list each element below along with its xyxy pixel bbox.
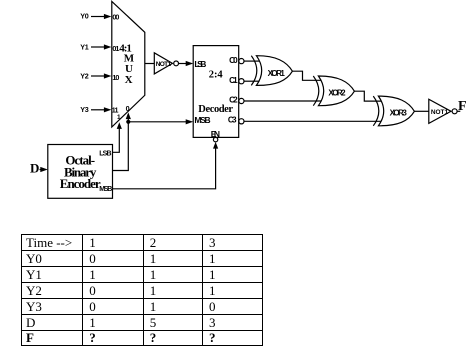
svg-text:2:4: 2:4 bbox=[209, 70, 224, 81]
wire Y3 input bbox=[91, 109, 105, 111]
wire Y0 input bbox=[91, 16, 105, 18]
decoder output bubble C0 bbox=[239, 59, 244, 64]
wire C3 to XOR3 bbox=[244, 120, 381, 122]
xor-gate XOR3 body bbox=[378, 96, 414, 126]
wire C0 to XOR1 bbox=[244, 60, 260, 62]
svg-text:0: 0 bbox=[126, 104, 130, 113]
wire encoder mid output to MUX select 0 bbox=[113, 119, 129, 171]
arrowhead Y0 bbox=[104, 14, 112, 19]
wire XOR2 output to XOR3 bbox=[354, 91, 381, 101]
svg-text:C1: C1 bbox=[229, 76, 238, 85]
svg-text:MSB: MSB bbox=[194, 115, 210, 125]
mux U1 4:1 MUX body bbox=[112, 1, 145, 127]
svg-text:NOT1: NOT1 bbox=[156, 61, 172, 68]
wire C2 to XOR2 bbox=[244, 100, 321, 102]
wire Y2 input bbox=[91, 75, 105, 77]
arrowhead to decoder MSB bbox=[186, 119, 194, 124]
wire D input bbox=[40, 169, 43, 171]
svg-text:C2: C2 bbox=[229, 96, 238, 105]
svg-text:LSB: LSB bbox=[99, 151, 111, 158]
svg-text:C3: C3 bbox=[228, 116, 237, 125]
svg-text:C0: C0 bbox=[229, 56, 238, 65]
junction dot bbox=[126, 120, 130, 124]
wire NOT2 bubble to F bbox=[457, 110, 460, 112]
wire encoder MSB to decoder EN bbox=[113, 148, 216, 188]
svg-text:D: D bbox=[30, 161, 39, 176]
arrowhead D input bbox=[40, 167, 48, 172]
decoder U2 2:4 decoder body bbox=[193, 46, 239, 138]
svg-text:U: U bbox=[125, 63, 133, 75]
arrowhead Y3 bbox=[104, 107, 112, 112]
truth table bbox=[21, 234, 264, 346]
arrowhead NOT1 to decoder LSB bbox=[186, 61, 194, 66]
svg-text:Y1: Y1 bbox=[80, 42, 89, 51]
xor-gate XOR1 body bbox=[256, 56, 292, 86]
not-gate NOT2 bubble bbox=[452, 109, 457, 114]
xor-gate XOR1 input arc bbox=[251, 56, 256, 86]
svg-text:Y3: Y3 bbox=[80, 105, 89, 114]
not-gate NOT1 triangle bbox=[154, 53, 172, 74]
arrowhead select 0 bbox=[126, 112, 131, 119]
arrowhead Y1 bbox=[104, 44, 112, 49]
decoder enable bubble EN bbox=[213, 137, 217, 141]
svg-text:F: F bbox=[458, 99, 467, 114]
wire Y1 input bbox=[91, 46, 105, 48]
wire XOR3 output to NOT2 bbox=[414, 110, 428, 112]
not-gate NOT2 triangle bbox=[429, 99, 451, 123]
encoder U3 octal-binary encoder body bbox=[48, 145, 113, 199]
svg-text:XOR2: XOR2 bbox=[328, 88, 346, 97]
wire encoder LSB to MUX select 1 bbox=[113, 129, 120, 153]
decoder output bubble C2 bbox=[239, 98, 244, 103]
wire XOR1 output to XOR2 bbox=[292, 71, 321, 80]
svg-text:10: 10 bbox=[112, 73, 119, 82]
svg-text:Y0: Y0 bbox=[80, 12, 89, 21]
wire C1 to XOR1 bbox=[244, 80, 260, 82]
svg-text:MSB: MSB bbox=[99, 186, 112, 193]
svg-text:EN: EN bbox=[211, 129, 220, 139]
svg-text:X: X bbox=[125, 74, 133, 86]
svg-text:1: 1 bbox=[117, 114, 121, 121]
xor-gate XOR3 input arc bbox=[373, 96, 379, 126]
wire branch to decoder MSB bbox=[128, 121, 186, 123]
svg-text:XOR3: XOR3 bbox=[390, 108, 408, 117]
svg-text:Y2: Y2 bbox=[80, 71, 89, 80]
xor-gate XOR2 body bbox=[318, 76, 354, 106]
decoder output bubble C3 bbox=[239, 119, 244, 124]
decoder output bubble C1 bbox=[239, 79, 244, 84]
svg-text:Decoder: Decoder bbox=[198, 104, 233, 115]
arrowhead Y2 bbox=[104, 73, 112, 78]
arrowhead select 1 bbox=[117, 122, 122, 129]
xor-gate XOR2 input arc bbox=[313, 76, 319, 106]
svg-text:00: 00 bbox=[112, 12, 119, 21]
svg-text:NOT1: NOT1 bbox=[431, 109, 449, 116]
wire MUX output to NOT1 bbox=[145, 63, 155, 65]
svg-text:XOR1: XOR1 bbox=[268, 69, 286, 78]
arrowhead to decoder EN bbox=[213, 142, 218, 149]
svg-text:LSB: LSB bbox=[194, 59, 206, 69]
svg-text:Encoder: Encoder bbox=[60, 176, 101, 191]
wire NOT1 to decoder LSB bbox=[179, 63, 187, 65]
not-gate NOT1 bubble bbox=[174, 61, 179, 66]
